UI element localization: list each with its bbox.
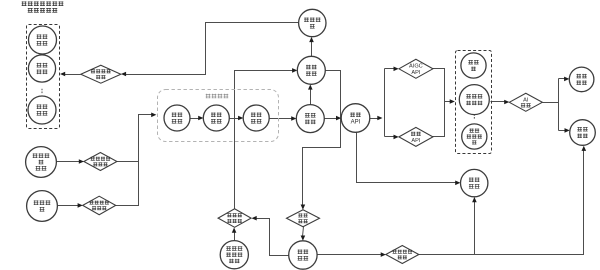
svg-text:API: API bbox=[351, 119, 361, 125]
svg-text:AI: AI bbox=[523, 97, 529, 103]
svg-text:API: API bbox=[411, 138, 420, 144]
svg-text:API: API bbox=[411, 70, 420, 76]
svg-text:AIGC: AIGC bbox=[409, 64, 423, 70]
